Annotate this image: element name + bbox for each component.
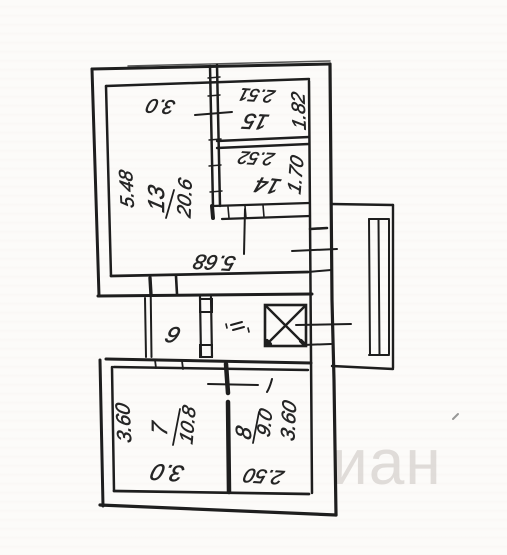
bottom block left wall outer — [100, 360, 103, 506]
svg-text:3.60: 3.60 — [278, 398, 301, 444]
svg-text:14: 14 — [251, 172, 284, 199]
corridor right wall hatch box top — [200, 299, 212, 312]
door jamb x176 — [176, 276, 177, 294]
label 11 tick right — [248, 328, 249, 332]
svg-text:15: 15 — [239, 109, 271, 135]
shaft arrow — [296, 324, 351, 325]
door tick 7/8 comma — [267, 379, 272, 392]
partition 13/15 left line — [210, 66, 213, 206]
band divider a — [228, 207, 229, 218]
svg-text:2.52: 2.52 — [236, 148, 278, 170]
door line 7/8 — [208, 384, 258, 385]
label 11 tick left — [226, 324, 227, 328]
fraction bar room7 — [173, 409, 180, 445]
svg-text:20.6: 20.6 — [174, 176, 197, 221]
svg-text:1.82: 1.82 — [288, 90, 310, 131]
stray pen mark near appendage — [453, 414, 458, 419]
partition 7/8 upper segment — [226, 364, 228, 393]
svg-text:13: 13 — [143, 183, 169, 215]
right wall tick y344 — [303, 344, 331, 345]
room14 bottom band upper — [213, 203, 309, 206]
wall top outer echo line — [128, 61, 330, 66]
right wall tick y250 — [292, 249, 337, 251]
stair inner rect left — [369, 219, 370, 355]
fraction bar room8 — [253, 412, 259, 443]
partition 13/15 right line — [217, 65, 220, 206]
partition hatch tick a — [208, 95, 220, 96]
band divider b — [245, 206, 246, 218]
wall top inner — [106, 79, 309, 86]
band divider c — [263, 205, 264, 217]
wall bottom of room 13 lower line — [98, 294, 312, 296]
room14 bottom band lower — [222, 216, 310, 219]
svg-text:7: 7 — [147, 418, 172, 438]
svg-text:6: 6 — [162, 322, 184, 348]
bottom block top inner — [114, 367, 308, 370]
wall left outer — [92, 69, 99, 296]
fraction bar room13 — [166, 190, 174, 218]
door jamb corridor/room7 a — [155, 360, 156, 368]
svg-text:3.0: 3.0 — [143, 94, 178, 117]
partition 7/8 lower segment — [228, 402, 229, 492]
stair inner rect right — [388, 220, 390, 354]
svg-text:5.48: 5.48 — [116, 168, 139, 209]
shaft diagonal a — [266, 306, 305, 345]
stair appendage top — [331, 204, 393, 205]
wall bottom of room 13 upper line — [111, 272, 308, 276]
label 11 stroke a — [231, 322, 242, 325]
svg-text:1.70: 1.70 — [285, 153, 308, 197]
svg-text:2.50: 2.50 — [240, 464, 287, 488]
bottom block left wall inner — [112, 367, 114, 491]
bottom outer — [100, 505, 336, 515]
partition hatch tick c — [210, 191, 222, 192]
shaft corner dot b — [301, 341, 304, 344]
partition hatch tick b — [209, 165, 221, 166]
corridor right wall hatch box bottom — [200, 345, 212, 357]
right wall tick y229 — [310, 228, 327, 229]
right wall tick y271 — [308, 270, 331, 272]
svg-text:2.51: 2.51 — [236, 84, 278, 107]
stair appendage bottom — [332, 366, 393, 369]
bottom inner — [114, 491, 309, 494]
wall left inner — [106, 86, 111, 276]
watermark — [332, 425, 442, 499]
door leaf room14 — [244, 209, 245, 254]
svg-text:5.68: 5.68 — [191, 250, 239, 276]
corridor left wall line b — [151, 277, 152, 357]
corridor right wall line b — [211, 297, 212, 357]
stair inner rect top — [369, 218, 389, 220]
wall right outer — [330, 64, 336, 515]
partition hatch tick e — [208, 77, 220, 78]
stair appendage right — [392, 205, 394, 368]
shaft corner dot a — [267, 341, 270, 344]
svg-text:3.60: 3.60 — [112, 401, 136, 444]
stair inner rect bottom — [369, 354, 389, 356]
stair inner rect mid — [379, 219, 380, 355]
wall top outer — [92, 64, 330, 69]
door jamb corridor/room7 b — [182, 361, 183, 369]
svg-text:8: 8 — [231, 423, 256, 442]
wall 15/14 upper — [217, 137, 309, 141]
label 11 stroke b — [233, 327, 244, 330]
shaft box — [265, 305, 306, 346]
svg-text:3.0: 3.0 — [148, 459, 188, 486]
bottom block top outer — [106, 359, 311, 363]
corridor left wall line a — [145, 298, 146, 357]
wall right inner — [309, 81, 312, 493]
partition hatch tick d — [209, 139, 221, 140]
door tick room13/room15 — [195, 112, 232, 115]
door jamb x150 thick part — [150, 278, 151, 295]
shaft diagonal b — [266, 306, 305, 345]
wall 15/14 lower — [217, 144, 309, 148]
corridor right wall line a — [200, 297, 201, 357]
room14 band corner blob — [212, 206, 213, 218]
